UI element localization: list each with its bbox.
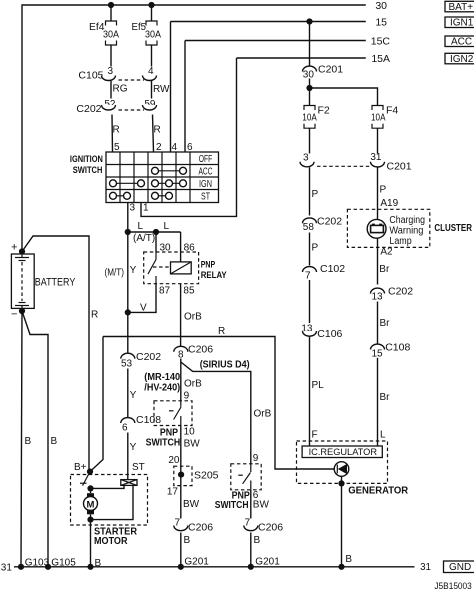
svg-text:M: M: [87, 500, 95, 511]
svg-text:C202: C202: [388, 286, 413, 298]
wire: junction to F4: [310, 88, 378, 106]
wire: C201-30 to fuse junction: [309, 79, 311, 106]
svg-text:C106: C106: [317, 328, 342, 340]
wire: F2 to C201-3: [309, 128, 311, 153]
svg-text:S205: S205: [194, 470, 219, 482]
fuse F2 10A: [302, 105, 330, 129]
switch contacts IGN row: [110, 180, 187, 187]
svg-text:30A: 30A: [103, 29, 119, 40]
svg-text:BW: BW: [253, 500, 270, 511]
splice S205: [174, 466, 219, 485]
svg-text:P: P: [380, 185, 387, 196]
diode D (generator): [334, 462, 349, 477]
wire OrB: relay 85 to C206-8: [181, 284, 203, 346]
wire: Ef4 to C105 pin 3: [110, 45, 112, 67]
svg-text:15A: 15A: [371, 53, 390, 65]
svg-text:3: 3: [107, 66, 113, 77]
relay coil 86-85: [171, 262, 192, 274]
svg-text:OrB: OrB: [254, 409, 272, 420]
svg-text:BW: BW: [183, 499, 200, 510]
node: L branch junction on ST wire: [125, 229, 131, 235]
wire: generator R feed to B+: [90, 337, 103, 472]
wire B: C206-7 to G201 (right): [251, 533, 261, 567]
wire BW: S205 to C206-7: [181, 486, 200, 519]
svg-text:31: 31: [420, 562, 431, 573]
wire: C206-8 down + fork: [180, 359, 182, 401]
svg-text:5: 5: [114, 142, 120, 153]
wire: relay pin 87 to V junction: [128, 284, 156, 313]
svg-text:17: 17: [167, 487, 179, 498]
svg-text:31: 31: [1, 563, 13, 574]
wire: C102-7 to C106-13: [309, 280, 311, 323]
svg-text:C202: C202: [76, 103, 101, 115]
pin 6 label + wire BW (switch 2): [251, 490, 270, 519]
svg-text:2: 2: [156, 142, 162, 153]
svg-text:−: −: [11, 309, 17, 321]
svg-text:Lamp: Lamp: [389, 236, 412, 247]
svg-text:V: V: [140, 303, 147, 314]
node: Ef4 tap on 30 rail: [108, 2, 114, 8]
svg-text:C201: C201: [318, 64, 343, 76]
wire: relay pin 86 feed: [180, 232, 182, 262]
switch pin numbers top: 5 2 4 6: [114, 142, 193, 153]
wire: battery + to generator/starter feed: [22, 236, 89, 472]
svg-text:7: 7: [305, 271, 311, 282]
label PNP SWITCH (1): [146, 428, 181, 449]
svg-text:B: B: [345, 554, 352, 565]
wire: lamp to A2 / Br: [377, 238, 379, 284]
svg-text:Br: Br: [379, 264, 390, 275]
svg-text:6: 6: [187, 142, 193, 153]
wire: F4 to C201-31: [377, 128, 379, 153]
starter solenoid switch blade: [80, 472, 90, 486]
svg-text:IGNITION: IGNITION: [70, 154, 103, 165]
wire: relay pin 30 drop: [155, 232, 157, 252]
connector C102 pin 7: [303, 263, 346, 282]
connector C206 pin 8: [174, 344, 213, 361]
connector C206 pin 7 (left): [174, 518, 213, 534]
svg-text:Y: Y: [130, 265, 137, 276]
wire R: C202-59 to switch pin 2: [153, 115, 161, 153]
terminal 15A IGN2: [371, 53, 474, 65]
wire R: generator output line: [103, 326, 334, 469]
svg-text:CLUSTER: CLUSTER: [434, 223, 472, 234]
terminal 15C ACC: [371, 36, 474, 48]
fuse Ef5 30A: [132, 21, 162, 45]
label (MR-140 /HV-240): [144, 372, 180, 393]
cluster dashed box: [347, 209, 429, 247]
wire Br: C108-15 to generator L: [378, 358, 391, 446]
svg-text:C108: C108: [136, 414, 161, 426]
connector C106 pin 13: [301, 324, 342, 341]
connector C202 pins 52 / 59: [76, 99, 156, 115]
switch contacts ACC row: [152, 167, 187, 174]
svg-text:10A: 10A: [371, 113, 386, 124]
starter motor M1: [84, 488, 98, 519]
switch S: PNP SWITCH 2 dashed box: [231, 464, 261, 490]
svg-text:G105: G105: [51, 558, 76, 569]
svg-text:GENERATOR: GENERATOR: [348, 485, 408, 497]
svg-text:15C: 15C: [371, 36, 391, 48]
wire P: C201-31 to cluster A19: [378, 167, 387, 219]
svg-text:/HV-240): /HV-240): [144, 382, 180, 393]
svg-text:20: 20: [168, 455, 180, 466]
svg-text:ACC: ACC: [199, 167, 213, 178]
ground G201 (left): [178, 557, 210, 570]
svg-text:B: B: [184, 535, 191, 546]
svg-text:L: L: [380, 430, 386, 441]
wire R: C202-52 to switch pin 5: [112, 115, 120, 153]
terminal 15 IGN1: [375, 16, 474, 28]
ignition switch table: [106, 152, 219, 203]
svg-text:OrB: OrB: [184, 379, 202, 390]
node: starter ground: [87, 564, 93, 570]
wire RG: C105-3 to C202-52: [111, 81, 128, 99]
svg-text:C202: C202: [136, 351, 161, 363]
node: V junction on ST wire: [125, 309, 131, 315]
svg-text:OFF: OFF: [199, 154, 213, 165]
wire P: C201-3 to C202-58: [310, 167, 319, 215]
svg-text:L: L: [138, 221, 144, 232]
svg-text:IC.REGULATOR: IC.REGULATOR: [309, 447, 378, 458]
lamp: charging warning lamp: [367, 219, 386, 238]
svg-text:J5B15003: J5B15003: [434, 580, 471, 591]
wire PL: C106-13 to generator F: [310, 337, 325, 447]
svg-text:Y: Y: [130, 442, 137, 453]
wire: switch pin 1 loop to 15A line: [141, 58, 237, 216]
switch S: PNP SWITCH 1 dashed box: [154, 401, 192, 426]
label PNP RELAY: [201, 259, 228, 280]
wire: 15A IGN2 line: [237, 57, 366, 59]
battery B1: [11, 254, 75, 308]
svg-text:BATTERY: BATTERY: [35, 277, 76, 289]
svg-text:IGN1: IGN1: [450, 18, 474, 29]
wire: solenoid to motor +: [91, 485, 125, 488]
relay pin labels 30 / 86: [160, 243, 196, 254]
node: starter motor + terminal: [87, 485, 93, 491]
svg-text:15: 15: [375, 16, 387, 28]
svg-text:ACC: ACC: [451, 37, 472, 48]
svg-text:+: +: [11, 242, 17, 254]
node: F2/F4 feed junction: [306, 85, 312, 91]
svg-text:Warning: Warning: [389, 226, 423, 237]
svg-text:13: 13: [372, 292, 384, 303]
wire L: branch to relay: [128, 231, 181, 233]
svg-text:(SIRIUS D4): (SIRIUS D4): [200, 360, 250, 371]
wire B: battery - to G103: [21, 311, 32, 567]
wire B: C206-7 to G201 (left): [181, 533, 191, 567]
svg-text:B: B: [51, 436, 58, 447]
svg-text:SWITCH: SWITCH: [215, 500, 249, 511]
connector C201 pin 30: [303, 64, 344, 81]
svg-text:85: 85: [183, 286, 195, 297]
relay pin labels 87 / 85: [159, 286, 195, 297]
connector C105 pins 3 / 4: [78, 66, 156, 82]
svg-text:R: R: [218, 326, 225, 337]
generator dashed box: [297, 441, 388, 483]
svg-text:P: P: [312, 243, 319, 254]
battery feed node +: [19, 248, 25, 254]
ground rail 31: [14, 566, 415, 568]
wire B: starter motor ground: [91, 520, 102, 569]
svg-text:C108: C108: [385, 342, 410, 354]
wire: switch pin 6 up to 15C line: [184, 41, 186, 153]
svg-text:SWITCH: SWITCH: [146, 437, 181, 448]
svg-text:BW: BW: [184, 439, 201, 450]
terminal 31 GND: [420, 561, 474, 573]
svg-text:A2: A2: [380, 247, 393, 258]
svg-text:ST: ST: [201, 192, 210, 203]
wire RW: C105-4 to C202-59: [152, 81, 171, 99]
label L (A/T): [133, 221, 155, 244]
svg-text:30: 30: [375, 0, 387, 12]
svg-text:B: B: [254, 535, 261, 546]
svg-text:(M/T): (M/T): [105, 268, 125, 279]
svg-text:R: R: [91, 310, 98, 321]
svg-text:F2: F2: [318, 105, 330, 117]
wire P: C202-58 chain: [303, 216, 343, 266]
connector C108 pin 6 (ST wire): [121, 414, 161, 434]
ground G201 (right): [248, 557, 281, 570]
wire: Ef5 to C105 pin 4: [151, 45, 153, 67]
svg-text:30: 30: [303, 70, 315, 81]
svg-text:R: R: [113, 125, 120, 136]
svg-text:GND: GND: [449, 562, 471, 573]
svg-text:4: 4: [148, 66, 154, 77]
starter solenoid coil ST: [121, 480, 137, 486]
svg-text:Br: Br: [380, 392, 391, 403]
IC regulator box: [302, 446, 382, 458]
node: battery negative: [19, 308, 25, 314]
starter motor dashed box: [71, 475, 148, 526]
PNP switch 2 contact: [238, 464, 251, 490]
svg-text:RW: RW: [153, 84, 170, 95]
wire: switch pin 3 down (ST main): [127, 203, 129, 354]
connector C206 pin 7 (right): [244, 518, 283, 534]
switch contacts ST row: [110, 192, 173, 199]
node: generator output junction: [338, 480, 344, 486]
svg-text:Br: Br: [380, 318, 391, 329]
wire: Ef4 drop from 30 rail: [110, 5, 112, 21]
svg-text:G201: G201: [255, 557, 280, 568]
connector C202 pin 13: [371, 286, 414, 303]
pin 10 label + wire BW: [181, 426, 200, 467]
svg-text:Y: Y: [130, 390, 137, 401]
svg-text:A19: A19: [380, 198, 398, 209]
relay U: PNP RELAY dashed box: [144, 252, 199, 284]
wire: Ef5 drop from 30 rail: [151, 5, 153, 21]
svg-text:C102: C102: [320, 263, 345, 275]
connector C108 pin 15: [371, 342, 411, 360]
svg-text:IGN2: IGN2: [450, 54, 474, 65]
wire Br: C202-13 to C108-15: [378, 302, 391, 345]
connector C202 pin 53 (ST wire): [121, 351, 161, 370]
svg-text:10: 10: [184, 427, 196, 438]
svg-text:P: P: [312, 189, 319, 200]
wire B: battery - to G105: [22, 311, 58, 567]
node: Ef5 tap on 30 rail: [148, 2, 154, 8]
wire: 30 BAT+ feed rail (top): [22, 5, 366, 252]
svg-text:31: 31: [370, 152, 382, 163]
svg-text:R: R: [154, 125, 161, 136]
fuse Ef4 30A: [89, 21, 119, 45]
svg-text:RG: RG: [113, 84, 128, 95]
wire: diode to ground rail: [341, 476, 343, 567]
svg-text:F: F: [312, 430, 318, 441]
node: tap on 15 line: [306, 18, 312, 24]
node B+: [87, 469, 93, 475]
wire: switch pin 4 up to 15 line: [170, 22, 172, 153]
svg-text:B+: B+: [74, 462, 87, 473]
label PNP SWITCH (2): [215, 491, 250, 511]
node: relay pin 30 branch: [153, 229, 159, 235]
svg-text:4: 4: [172, 142, 178, 153]
svg-text:G201: G201: [184, 557, 209, 568]
svg-text:C105: C105: [78, 70, 103, 82]
svg-text:30A: 30A: [145, 29, 161, 40]
svg-text:IGN: IGN: [199, 179, 212, 190]
ground G103: [18, 558, 50, 570]
relay contact 30-87: [148, 252, 156, 284]
PNP switch 1 contact: [169, 401, 181, 426]
svg-text:C206: C206: [188, 522, 213, 534]
svg-text:Charging: Charging: [389, 215, 425, 226]
svg-text:MOTOR: MOTOR: [94, 536, 128, 547]
svg-text:C201: C201: [387, 161, 412, 173]
svg-text:53: 53: [121, 359, 133, 370]
relay mechanical link (dashed): [153, 266, 171, 268]
svg-text:9: 9: [253, 453, 259, 464]
svg-text:F4: F4: [386, 105, 398, 117]
svg-text:10A: 10A: [302, 113, 317, 124]
svg-text:L: L: [164, 221, 170, 232]
label Charging Warning Lamp: [389, 215, 425, 247]
ground G105: [45, 558, 76, 570]
wire: 15 line to C201-30: [309, 22, 311, 67]
svg-text:SWITCH: SWITCH: [73, 165, 103, 176]
switch pin numbers bottom: 3 1: [130, 203, 150, 214]
svg-text:87: 87: [159, 286, 171, 297]
svg-text:(A/T): (A/T): [133, 233, 155, 244]
svg-text:9: 9: [184, 391, 190, 402]
node: starter motor - terminal: [87, 517, 93, 523]
label STARTER MOTOR: [94, 527, 138, 548]
svg-text:3: 3: [130, 203, 136, 214]
svg-text:C206: C206: [258, 522, 283, 534]
svg-text:1: 1: [143, 203, 149, 214]
node: generator ground: [338, 564, 344, 570]
svg-text:B: B: [25, 436, 32, 447]
connector C201 pins 3 / 31: [300, 152, 412, 173]
svg-text:PNP: PNP: [201, 259, 216, 270]
wire: 15C ACC line: [185, 40, 366, 42]
wire: 15 IGN1 line: [171, 21, 366, 23]
svg-text:BAT+: BAT+: [449, 2, 474, 13]
svg-text:PL: PL: [312, 380, 325, 391]
wire: solenoid return to motor -: [91, 485, 134, 519]
svg-text:RELAY: RELAY: [201, 270, 228, 281]
svg-text:58: 58: [303, 222, 315, 233]
svg-text:OrB: OrB: [184, 312, 202, 323]
svg-text:6: 6: [122, 423, 128, 434]
svg-text:ST: ST: [132, 462, 145, 473]
terminal 30 BAT+: [375, 0, 474, 13]
wire: fork to SIRIUS D4 branch: [181, 362, 251, 464]
svg-text:C206: C206: [188, 344, 213, 356]
ignition switch label: [70, 154, 103, 176]
svg-text:C202: C202: [317, 216, 342, 228]
fuse F4 10A: [371, 105, 398, 129]
